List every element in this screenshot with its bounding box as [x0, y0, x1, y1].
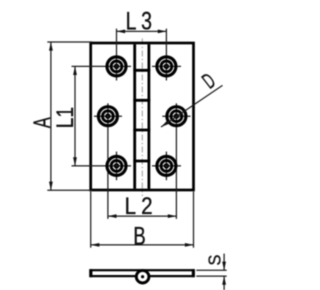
centerline bottom-left hole — [72, 152, 132, 181]
hole top-right — [157, 57, 176, 76]
side view pin — [141, 275, 144, 278]
dimension L3 — [117, 7, 167, 35]
hole middle-left — [98, 107, 117, 126]
dimension B — [91, 192, 194, 250]
svg-text:L 2: L 2 — [125, 193, 153, 220]
knuckle strip right line — [147, 44, 150, 188]
centerline bottom-right hole — [152, 152, 181, 181]
svg-text:L1: L1 — [51, 107, 79, 128]
hole top-left — [107, 57, 126, 76]
side view bar — [90, 270, 194, 276]
centerline middle-right hole — [162, 103, 190, 219]
dimension A — [29, 42, 92, 190]
knuckle divider 2 — [133, 99, 150, 102]
centerline middle-left hole — [94, 103, 122, 219]
leader D — [160, 68, 223, 128]
dimension L2 — [108, 193, 176, 220]
hole bottom-left — [107, 156, 126, 175]
knuckle strip left line — [133, 44, 136, 188]
strip centerline — [141, 39, 143, 197]
side view left end cap — [90, 269, 93, 277]
knuckle divider 1 — [133, 69, 150, 72]
centerline top-left hole — [72, 29, 132, 81]
svg-text:S: S — [204, 255, 225, 266]
side view right end cap — [192, 269, 195, 277]
hole bottom-right — [157, 156, 176, 175]
side view knuckle — [136, 270, 149, 283]
svg-text:D: D — [198, 68, 220, 93]
hole middle-right — [167, 107, 186, 126]
centerline top-right hole — [152, 29, 181, 81]
knuckle divider 4 — [133, 160, 150, 163]
svg-text:L 3: L 3 — [126, 7, 152, 35]
hinge plate outline — [91, 43, 194, 190]
dimension S — [196, 254, 226, 290]
svg-text:B: B — [133, 222, 145, 250]
dimension L1 — [51, 66, 79, 165]
knuckle divider 3 — [133, 129, 150, 132]
